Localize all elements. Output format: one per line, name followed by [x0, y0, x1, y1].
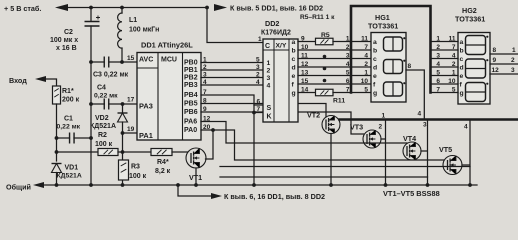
wire R2 right	[118, 151, 151, 153]
resistor R11	[316, 89, 334, 96]
svg-text:4: 4	[418, 111, 422, 118]
svg-text:100 мк х: 100 мк х	[50, 37, 78, 44]
inductor L1	[118, 13, 122, 48]
HG1 digit 1	[384, 37, 403, 51]
svg-text:VD1: VD1	[65, 165, 79, 172]
svg-text:e: e	[460, 73, 464, 80]
HG1 digit 3	[384, 82, 403, 96]
wire row e	[298, 75, 371, 77]
svg-text:R5–R11 1 к: R5–R11 1 к	[300, 14, 335, 21]
ellipsis dots	[323, 55, 327, 59]
svg-text:AVC: AVC	[139, 57, 153, 64]
wire VT3 drain	[381, 120, 386, 186]
svg-text:Общий: Общий	[6, 183, 31, 192]
wire PB2-DD2	[201, 77, 263, 79]
svg-text:4: 4	[364, 52, 368, 59]
svg-text:2: 2	[436, 44, 440, 51]
wire VT1 drain	[206, 130, 214, 159]
svg-text:10: 10	[448, 78, 456, 85]
svg-text:R5: R5	[321, 32, 330, 39]
svg-text:C1: C1	[64, 116, 73, 123]
wire L1 bottom	[121, 48, 123, 62]
HG2 digit 1	[466, 36, 486, 55]
svg-text:7: 7	[436, 86, 440, 93]
wire PB1-DD2	[201, 69, 263, 71]
svg-text:R3: R3	[131, 164, 140, 171]
wire PB0-DD2	[201, 62, 263, 64]
svg-text:5: 5	[364, 86, 368, 93]
capacitor C2	[85, 22, 100, 27]
Вход arrow	[35, 76, 46, 82]
bus segment lines	[351, 6, 431, 93]
svg-text:a: a	[373, 39, 377, 46]
wire ground column B	[90, 26, 92, 185]
wire DD2 supply pin1	[207, 8, 263, 43]
svg-text:2: 2	[256, 72, 260, 79]
HG2 digit 2	[466, 59, 486, 78]
svg-text:PB3: PB3	[184, 82, 198, 89]
wire PB3-DD2	[201, 84, 263, 86]
svg-text:R2: R2	[98, 132, 107, 139]
wire gate VT4	[201, 122, 407, 144]
svg-text:2: 2	[511, 57, 515, 64]
transistor VT1	[186, 148, 206, 168]
wire L1 top	[121, 8, 123, 14]
svg-text:1: 1	[512, 47, 516, 54]
wire VT1 source	[195, 168, 197, 185]
HG1 digit 2	[384, 60, 403, 74]
wire row c	[298, 58, 371, 60]
svg-text:PB0: PB0	[184, 60, 198, 67]
svg-text:PA0: PA0	[184, 127, 197, 134]
svg-text:VT4: VT4	[403, 134, 416, 143]
svg-text:DD1 ATtiny26L: DD1 ATtiny26L	[141, 41, 193, 50]
svg-text:MCU: MCU	[161, 57, 177, 64]
svg-text:200 к: 200 к	[62, 97, 80, 104]
svg-text:10: 10	[361, 78, 369, 85]
wire input to R2	[57, 151, 99, 153]
capacitor C3	[104, 57, 109, 68]
Общий arrow	[33, 182, 44, 188]
wire HG2 pin row 92.5	[431, 92, 459, 94]
svg-text:VT3: VT3	[350, 123, 363, 132]
diode VD2	[118, 112, 128, 114]
wire VT2 source	[330, 134, 332, 186]
wire HG2 pin row 67	[431, 66, 459, 68]
HG2 digit 3	[466, 83, 486, 102]
svg-text:100 к: 100 к	[129, 173, 147, 180]
arrow to DD1 pin5 / DD2 pin16	[214, 4, 227, 11]
svg-text:PA6: PA6	[184, 119, 197, 126]
svg-text:КД521А: КД521А	[57, 173, 82, 180]
wire HG2 pin row 50	[431, 49, 459, 51]
wire row b	[298, 49, 371, 51]
svg-text:11: 11	[449, 35, 456, 42]
svg-text:b: b	[292, 47, 296, 54]
resistor R1	[53, 86, 61, 104]
svg-text:+ 5 В стаб.: + 5 В стаб.	[4, 4, 41, 13]
svg-text:4: 4	[452, 52, 456, 59]
wire C2 top	[90, 8, 92, 22]
svg-text:1: 1	[364, 69, 368, 76]
wire pin19	[123, 132, 138, 134]
wire input	[46, 79, 57, 86]
wire VD1 bottom	[56, 173, 58, 186]
svg-text:PB4: PB4	[184, 92, 198, 99]
svg-text:S: S	[267, 105, 272, 112]
svg-text:VT2: VT2	[307, 111, 320, 120]
svg-text:TOT3361: TOT3361	[368, 22, 398, 31]
svg-text:К выв. 6, 16 DD1, выв. 8 DD2: К выв. 6, 16 DD1, выв. 8 DD2	[224, 192, 325, 201]
wire to pins 6 16	[178, 185, 212, 196]
wire source link	[220, 166, 470, 168]
node L1 top	[120, 6, 124, 10]
wire gate VT2	[201, 104, 326, 118]
svg-text:3: 3	[436, 52, 440, 59]
svg-text:d: d	[460, 64, 464, 71]
svg-text:c: c	[373, 56, 377, 63]
svg-text:6: 6	[346, 78, 350, 85]
svg-text:c: c	[460, 56, 464, 63]
svg-text:5: 5	[256, 57, 260, 64]
svg-text:5: 5	[436, 69, 440, 76]
svg-text:PB6: PB6	[184, 109, 198, 116]
capacitor C4	[91, 103, 104, 105]
wire row f	[298, 83, 371, 85]
svg-text:7: 7	[257, 106, 261, 113]
wire gate VT3	[201, 112, 364, 134]
svg-text:6: 6	[257, 99, 261, 106]
svg-text:g: g	[292, 90, 296, 97]
svg-text:х 16 В: х 16 В	[56, 45, 77, 52]
wire gate VT5	[201, 130, 444, 160]
resistor R4	[151, 149, 172, 156]
svg-text:1: 1	[258, 36, 262, 43]
svg-text:K: K	[267, 114, 272, 121]
svg-text:8: 8	[493, 47, 497, 54]
capacitor C1	[57, 137, 70, 139]
svg-text:4: 4	[464, 124, 468, 131]
svg-text:L1: L1	[129, 17, 137, 24]
svg-text:X/Y: X/Y	[276, 43, 287, 50]
svg-text:7: 7	[452, 44, 456, 51]
wire input node	[56, 104, 58, 161]
svg-text:4: 4	[346, 61, 350, 68]
svg-text:b: b	[373, 47, 377, 54]
svg-text:a: a	[292, 39, 296, 46]
wire PB4 to S/K	[201, 95, 254, 185]
wire lower link	[220, 176, 428, 178]
svg-text:100 мкГн: 100 мкГн	[129, 27, 159, 34]
node DD2 supply	[205, 6, 209, 10]
svg-text:1: 1	[346, 35, 350, 42]
svg-text:5: 5	[346, 69, 350, 76]
svg-text:g: g	[460, 90, 464, 97]
svg-text:4: 4	[436, 61, 440, 68]
wire row g	[298, 92, 316, 94]
svg-text:2: 2	[452, 61, 456, 68]
svg-text:К выв. 5 DD1, выв. 16 DD2: К выв. 5 DD1, выв. 16 DD2	[230, 4, 323, 13]
svg-text:6: 6	[436, 78, 440, 85]
svg-text:4: 4	[256, 79, 260, 86]
svg-text:R1*: R1*	[62, 88, 74, 95]
svg-text:VD2: VD2	[95, 115, 109, 122]
svg-text:R4*: R4*	[157, 159, 169, 166]
svg-text:8,2 к: 8,2 к	[155, 168, 171, 175]
transistor VT4	[403, 142, 421, 160]
svg-text:К176ИД2: К176ИД2	[261, 30, 291, 37]
svg-text:17: 17	[127, 97, 135, 104]
svg-text:3: 3	[423, 122, 427, 129]
svg-text:c: c	[292, 56, 296, 63]
transistor VT5	[443, 156, 462, 175]
svg-text:DD2: DD2	[265, 19, 279, 28]
svg-text:0,22 мк: 0,22 мк	[94, 93, 118, 100]
svg-text:d: d	[292, 64, 296, 71]
svg-text:15: 15	[127, 55, 135, 62]
svg-text:7: 7	[364, 44, 368, 51]
+5V arrow	[55, 4, 68, 11]
svg-text:2: 2	[267, 67, 271, 74]
svg-text:PA3: PA3	[139, 102, 153, 111]
wire top rail	[68, 7, 208, 9]
node C2 top	[89, 6, 93, 10]
svg-text:PB1: PB1	[184, 67, 198, 74]
svg-text:PA1: PA1	[139, 131, 153, 140]
wire HG2 pin row 41.5	[431, 41, 459, 43]
wire VT5 drain	[462, 120, 470, 186]
svg-text:PB2: PB2	[184, 75, 198, 82]
svg-text:7: 7	[346, 86, 350, 93]
svg-text:9: 9	[493, 57, 497, 64]
svg-text:b: b	[460, 47, 464, 54]
svg-text:3: 3	[346, 52, 350, 59]
svg-text:8: 8	[408, 63, 412, 70]
resistor R5	[316, 38, 334, 45]
svg-text:g: g	[373, 90, 377, 97]
resistor R3	[119, 160, 129, 180]
svg-text:3: 3	[256, 64, 260, 71]
svg-text:2: 2	[346, 44, 350, 51]
wire pin17	[109, 103, 137, 105]
svg-text:1: 1	[267, 60, 271, 67]
svg-text:1: 1	[452, 69, 456, 76]
diode VD1	[52, 163, 62, 165]
bus digit commons	[340, 118, 518, 121]
svg-text:КД521А: КД521А	[90, 123, 116, 130]
wire HG2 pin row 75.5	[431, 75, 459, 77]
svg-text:2: 2	[379, 124, 383, 131]
svg-text:4: 4	[267, 82, 271, 89]
svg-text:C3 0,22 мк: C3 0,22 мк	[93, 72, 129, 79]
svg-text:100 к: 100 к	[95, 141, 113, 148]
wire row a	[298, 41, 316, 43]
svg-text:R11: R11	[333, 98, 345, 105]
svg-text:1: 1	[436, 35, 440, 42]
svg-text:3: 3	[511, 67, 515, 74]
wire HG2 pin row 84	[431, 83, 459, 85]
HG2 commons 8 9 12	[490, 53, 518, 55]
svg-text:12: 12	[492, 67, 500, 74]
svg-text:0,22 мк: 0,22 мк	[57, 124, 81, 131]
wire R4 to VT1 gate	[172, 151, 188, 153]
svg-text:C2: C2	[64, 29, 73, 36]
svg-text:d: d	[373, 64, 377, 71]
wire HG2 pin row 58.5	[431, 58, 459, 60]
svg-text:5: 5	[452, 86, 456, 93]
svg-text:2: 2	[364, 61, 368, 68]
transistor VT3	[363, 130, 381, 148]
wire C3 left	[91, 61, 104, 63]
resistor R2	[98, 149, 118, 156]
svg-text:e: e	[292, 73, 296, 80]
svg-text:C: C	[265, 43, 270, 50]
svg-text:19: 19	[127, 126, 135, 133]
transistor VT2	[322, 116, 340, 134]
svg-text:3: 3	[267, 75, 271, 82]
svg-text:11: 11	[361, 35, 368, 42]
svg-text:C4: C4	[97, 85, 106, 92]
svg-text:VT5: VT5	[439, 145, 452, 154]
wire pin15	[109, 61, 137, 63]
svg-text:e: e	[373, 73, 377, 80]
wire VT4 drain	[421, 120, 428, 186]
svg-text:PB5: PB5	[184, 101, 198, 108]
wire row d	[298, 66, 371, 68]
svg-text:Вход: Вход	[9, 76, 27, 85]
svg-text:a: a	[460, 39, 464, 46]
svg-text:VT1–VT5 BSS88: VT1–VT5 BSS88	[383, 189, 440, 198]
wire ground rail	[44, 184, 477, 186]
svg-text:TOT3361: TOT3361	[455, 15, 485, 24]
